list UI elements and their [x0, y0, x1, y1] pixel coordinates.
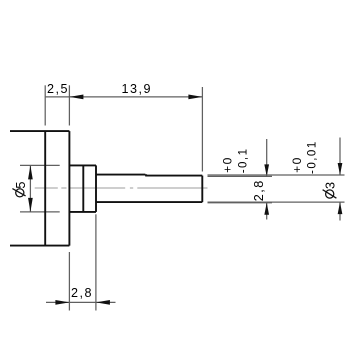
svg-text:+0: +0 — [220, 156, 234, 173]
step cylinder Ø5 — [69, 165, 96, 212]
dimension 2,8 bottom (step length) extension and dimension lines — [46, 214, 116, 310]
svg-text:5: 5 — [14, 180, 28, 189]
center line (dash-dot axis of shaft) — [35, 187, 208, 189]
svg-text:3: 3 — [324, 180, 338, 189]
extension line top for dimension Ø5 — [20, 164, 60, 166]
arrowhead top of dimension 2,8 right — [264, 164, 269, 176]
extension line bottom for dimension Ø5 — [20, 211, 60, 213]
shaft Ø3 with flat end section — [96, 175, 202, 203]
arrowhead bottom of dimension 2,8 right — [264, 203, 269, 215]
arrowhead bottom of dimension Ø3 — [338, 202, 343, 214]
svg-text:-0,1: -0,1 — [238, 147, 250, 173]
dimension 2,8 right (across flats) extension and dimension lines — [208, 139, 273, 220]
arrowhead right of dimension 2,8 bottom — [96, 300, 110, 305]
value label Ø3 (rotated, diameter symbol drawn) — [323, 180, 338, 198]
arrowhead top of dimension Ø3 — [338, 163, 343, 175]
arrowhead left of dimension 2,8 bottom — [55, 300, 69, 305]
arrowhead down of dimension Ø5 — [28, 198, 33, 212]
dimension Ø3 (shaft diameter) extension and dimension lines — [208, 138, 345, 221]
value label Ø5 (rotated, diameter symbol drawn) — [12, 180, 27, 197]
dimension 13,9 (shaft length) dimension line and extension line — [69, 87, 202, 172]
body outline (housing, cut off at left) — [10, 131, 69, 246]
dimension 2,5 (flange width) extension and dimension lines — [45, 85, 69, 125]
svg-text:13,9: 13,9 — [122, 82, 153, 96]
svg-text:+0: +0 — [290, 156, 304, 173]
svg-text:-0,01: -0,01 — [307, 140, 319, 174]
svg-text:2,8: 2,8 — [71, 286, 93, 300]
svg-text:2,8: 2,8 — [252, 179, 266, 201]
svg-text:2,5: 2,5 — [47, 82, 69, 96]
dimension Ø5 dimension line — [29, 165, 31, 212]
arrowhead up of dimension Ø5 — [28, 165, 33, 179]
arrowhead left of dimension 13,9 — [69, 95, 83, 100]
arrowhead right of dimension 13,9 — [188, 95, 202, 100]
